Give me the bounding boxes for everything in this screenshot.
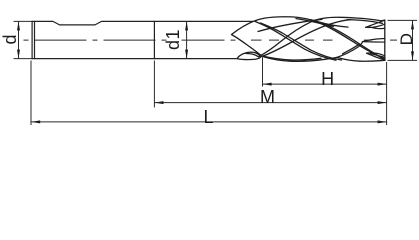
svg-text:L: L (203, 107, 213, 127)
svg-text:d: d (0, 34, 20, 44)
svg-text:D: D (397, 33, 416, 45)
svg-text:H: H (321, 69, 334, 89)
svg-text:d1: d1 (163, 29, 183, 50)
svg-text:M: M (260, 87, 275, 107)
